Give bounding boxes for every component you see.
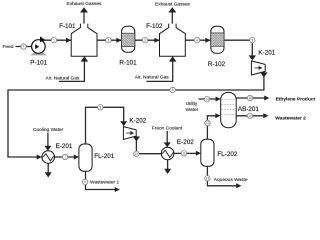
arrowhead wastewater 1 [115,187,120,192]
arrowhead into F-102 [154,38,159,43]
wire exhaust F-101 [83,12,85,25]
wire pump outlet to F-101 [39,39,71,41]
wire air natural gas into F-102 [146,61,172,82]
stream bubble 5 [250,38,255,43]
svg-text:15: 15 [248,96,252,100]
stream bubble 1 [51,38,56,43]
svg-text:AB-201: AB-201 [238,106,260,113]
svg-text:R-102: R-102 [208,61,226,68]
furnace F-102 [160,24,186,57]
arrowhead ethylene product [264,96,269,101]
arrowhead into K-201 [249,55,256,60]
flash drum FL-202 [201,139,214,166]
compressor K-202 [123,127,136,140]
svg-text:11: 11 [182,152,186,156]
wire F-101 to R-101 [97,39,121,41]
pump P-101 discharge arrow [40,36,45,42]
wire K-201 outlet long recycle to E-201 [8,72,264,157]
svg-text:FL-201: FL-201 [94,153,114,160]
svg-text:Utility: Utility [186,101,198,107]
pump P-101 base [30,53,47,56]
arrowhead aqueous waste [236,183,241,188]
svg-text:F-102: F-102 [146,23,163,30]
heat exchanger E-201 [42,151,55,164]
arrowhead wastewater 2 [263,113,268,118]
svg-text:Feed: Feed [3,44,14,50]
svg-text:Air, Natural Gas: Air, Natural Gas [46,75,80,81]
arrowhead on K-202 outlet [133,137,140,142]
svg-text:12: 12 [206,121,210,125]
arrowhead on K-201 outlet [260,72,267,77]
wire cooling water into E-201 [47,133,49,147]
wire R-102 to K-201 [225,40,253,56]
stream bubble 11 E-202 outlet [181,151,186,156]
svg-text:Wastewater 1: Wastewater 1 [90,180,119,186]
svg-text:Aqueous Waste: Aqueous Waste [214,177,248,183]
svg-text:Exhaust Gasses: Exhaust Gasses [67,1,103,7]
arrowhead stream 12 into AB-201 [215,113,220,118]
wire utility water into AB-201 [199,98,217,100]
svg-text:K-201: K-201 [258,50,275,57]
wire FL-202 vapor to AB-201 [207,116,216,139]
reactor R-101 [122,26,135,52]
arrowhead into E-201 [37,155,42,160]
svg-text:14: 14 [205,97,209,101]
arrowhead utility water [216,97,221,102]
svg-text:P-101: P-101 [30,60,47,67]
wire ethylene product [236,97,265,99]
reactor R-102 catalyst bed [211,33,224,46]
svg-text:10: 10 [135,152,139,156]
stream bubble 10 K-202 outlet [134,151,139,156]
svg-text:4: 4 [196,38,198,42]
stream bubble 12 FL-202 vapor [205,120,210,125]
stream bubble wastewater 2 [247,113,252,118]
wire wastewater 2 [236,115,264,117]
arrowhead air into F-102 [169,56,176,61]
arrowhead freon coolant [164,142,171,147]
wire E-202 bottom outlet [167,160,169,170]
wire R-101 to F-102 [135,39,159,41]
stream bubble ethylene product [247,95,252,100]
svg-text:7: 7 [64,155,66,159]
svg-text:9: 9 [84,180,86,184]
wire freon coolant into E-202 [166,131,168,143]
svg-text:Exhaust Gasses: Exhaust Gasses [155,2,191,8]
svg-text:Cooling Water: Cooling Water [33,127,64,133]
svg-text:F: F [23,45,25,49]
svg-text:Ethylene Product: Ethylene Product [276,96,316,102]
wire FL-201 liquid to wastewater 1 [86,171,116,189]
reactor R-102 [211,26,224,53]
svg-text:E-201: E-201 [56,143,73,150]
furnace F-101 [71,24,97,57]
wire feed to pump [16,46,33,48]
compressor K-202 inner arrow [126,132,131,134]
stream bubble 9 wastewater1 [83,179,88,184]
wire E-201 to FL-201 [55,156,75,158]
svg-text:E-202: E-202 [177,139,194,146]
arrowhead exhaust F-102 [168,7,176,12]
svg-text:Wastewater 2: Wastewater 2 [275,115,306,121]
pump P-101 [32,40,46,54]
wire air natural gas into F-101 [59,61,84,82]
svg-text:F-101: F-101 [59,23,76,30]
wire FL-202 liquid to aqueous waste [207,166,237,186]
wire E-201 bottom outlet [47,163,49,173]
heat exchanger E-202 [161,147,174,160]
arrowhead cooling water [44,146,51,151]
svg-text:Air, Natural Gas: Air, Natural Gas [135,74,169,80]
arrowhead air into F-101 [81,56,88,61]
arrowhead into FL-201 [74,155,79,160]
arrowhead into R-102 [205,38,210,43]
flash drum FL-201 [79,144,92,171]
stream bubble 8 [98,105,103,110]
wire F-102 to R-102 [185,39,210,41]
arrowhead E-201 bottom [45,172,52,177]
arrowhead exhaust F-101 [80,7,88,12]
svg-text:Freon Coolant: Freon Coolant [152,125,183,131]
stream bubble 2 [106,38,111,43]
svg-text:1: 1 [53,38,55,42]
svg-text:13: 13 [206,177,210,181]
compressor K-201 [251,61,265,75]
svg-text:K-202: K-202 [129,118,146,125]
wire E-202 to FL-202 [174,152,197,154]
svg-text:6: 6 [172,88,174,92]
wire K-202 outlet to E-202 [136,136,161,154]
arrowhead into F-101 [66,38,71,43]
arrowhead into K-202 [120,121,127,126]
svg-text:2: 2 [108,38,110,42]
svg-text:FL-202: FL-202 [217,151,237,158]
wire exhaust F-102 [171,12,173,25]
stream bubble utility water [204,97,209,102]
stream bubble F feed [21,44,26,49]
svg-text:3: 3 [144,38,146,42]
arrowhead into FL-202 [196,151,201,156]
svg-text:R-101: R-101 [119,60,137,67]
stream bubble 7 [62,154,67,159]
stream bubble 3 [142,38,147,43]
arrowhead into R-101 [116,38,121,43]
pump P-101 impeller arrow [35,44,39,49]
arrowhead E-202 bottom [164,169,171,174]
svg-text:5: 5 [251,38,253,42]
absorber AB-201 [221,92,237,127]
stream bubble 4 [194,38,199,43]
svg-text:Water: Water [186,107,199,113]
reactor R-101 catalyst bed [122,33,135,46]
compressor K-201 inner arrow [255,67,260,69]
svg-text:8: 8 [99,106,101,110]
stream bubble 13 FL-202 liquid [205,176,210,181]
absorber AB-201 trays [221,99,235,114]
svg-text:16: 16 [248,114,252,118]
stream bubble 6 [170,87,175,92]
wire FL-201 vapor to K-202 [86,107,124,144]
